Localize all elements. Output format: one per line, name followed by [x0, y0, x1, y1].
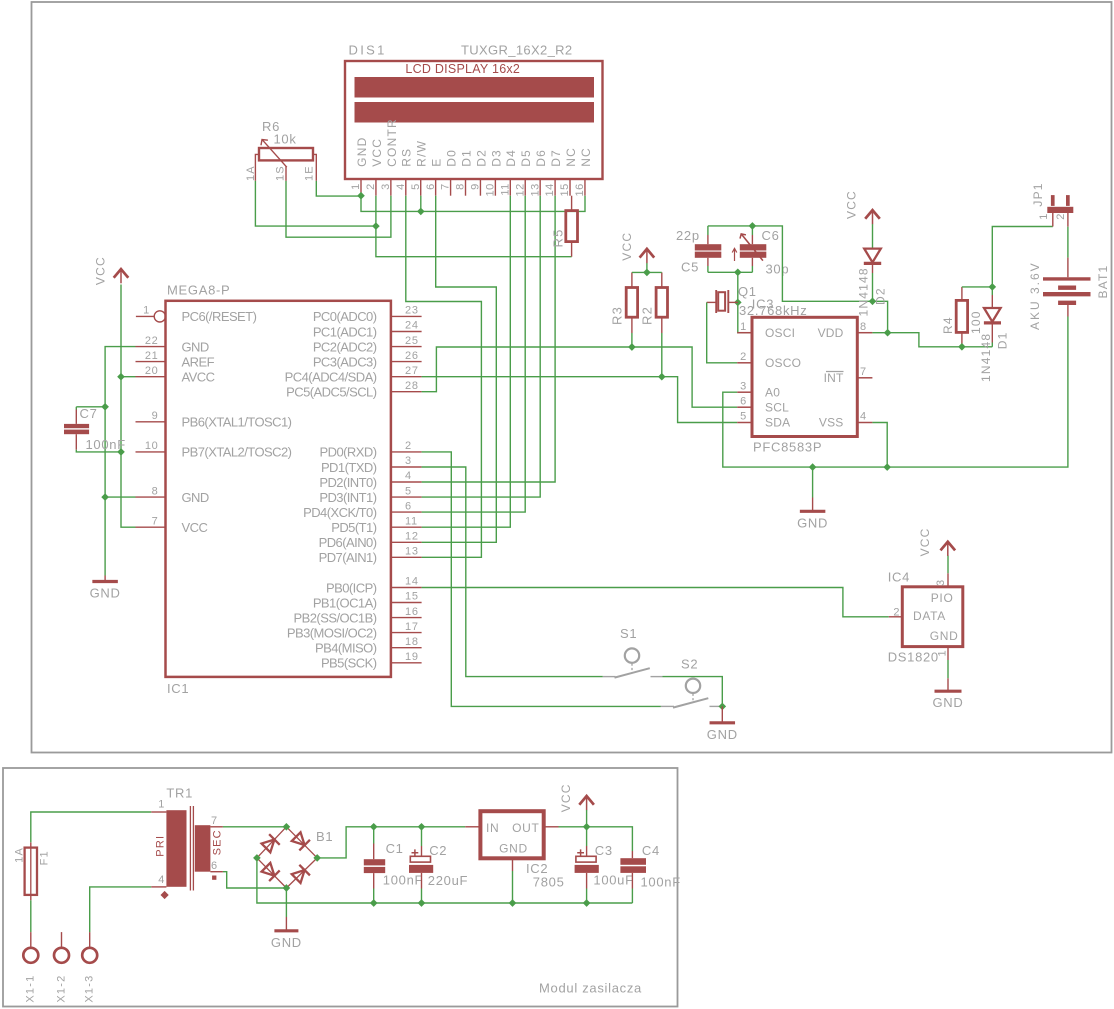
svg-text:PFC8583P: PFC8583P	[753, 440, 822, 455]
svg-text:12: 12	[514, 183, 526, 196]
svg-text:7: 7	[211, 815, 218, 827]
svg-text:PRI: PRI	[154, 835, 166, 857]
svg-text:PD7(AIN1): PD7(AIN1)	[319, 550, 377, 565]
svg-text:28: 28	[405, 380, 419, 392]
svg-text:B1: B1	[316, 829, 333, 844]
svg-text:Modul zasilacza: Modul zasilacza	[539, 981, 642, 996]
svg-text:R/W: R/W	[415, 140, 429, 167]
svg-text:C6: C6	[762, 228, 780, 243]
svg-text:1A: 1A	[245, 165, 257, 181]
svg-text:15: 15	[559, 183, 571, 196]
svg-text:4: 4	[158, 874, 165, 886]
svg-text:CONTR: CONTR	[385, 118, 399, 167]
svg-text:16: 16	[405, 606, 419, 618]
svg-text:2: 2	[1055, 212, 1067, 219]
svg-text:GND: GND	[499, 842, 528, 856]
svg-text:6: 6	[405, 500, 412, 512]
svg-text:2: 2	[893, 607, 900, 619]
svg-text:X1-2: X1-2	[55, 975, 67, 1003]
svg-text:8: 8	[860, 321, 867, 333]
svg-text:IN: IN	[486, 821, 499, 835]
svg-text:19: 19	[405, 651, 419, 663]
svg-text:D2: D2	[874, 287, 888, 305]
svg-text:C2: C2	[429, 843, 447, 858]
svg-text:26: 26	[405, 350, 419, 362]
svg-text:100nF: 100nF	[383, 873, 423, 888]
svg-text:5: 5	[410, 183, 422, 190]
svg-text:GND: GND	[90, 586, 121, 601]
svg-text:RS: RS	[400, 148, 414, 167]
svg-text:F1: F1	[39, 850, 51, 865]
svg-text:22p: 22p	[676, 228, 700, 243]
svg-text:VCC: VCC	[94, 256, 108, 285]
svg-text:IC1: IC1	[167, 681, 189, 696]
svg-text:3: 3	[405, 455, 412, 467]
svg-text:24: 24	[405, 320, 419, 332]
svg-text:4: 4	[395, 183, 407, 190]
svg-text:OUT: OUT	[512, 821, 539, 835]
svg-text:D4: D4	[504, 149, 518, 167]
svg-text:15: 15	[405, 591, 419, 603]
svg-text:2: 2	[365, 183, 377, 190]
svg-text:OSCO: OSCO	[765, 356, 801, 370]
svg-text:VCC: VCC	[182, 520, 208, 535]
svg-text:1: 1	[158, 799, 165, 811]
svg-text:13: 13	[405, 546, 419, 558]
svg-text:R4: R4	[941, 316, 955, 334]
svg-text:3: 3	[740, 380, 747, 392]
svg-text:7: 7	[152, 515, 159, 527]
svg-text:9: 9	[152, 410, 159, 422]
svg-text:1: 1	[740, 321, 747, 333]
svg-text:VCC: VCC	[620, 232, 634, 261]
svg-text:PB3(MOSI/OC2): PB3(MOSI/OC2)	[287, 625, 377, 640]
svg-text:4: 4	[405, 470, 412, 482]
svg-text:220uF: 220uF	[428, 873, 468, 888]
svg-text:1E: 1E	[303, 165, 315, 181]
svg-text:14: 14	[544, 183, 556, 196]
svg-text:2: 2	[405, 440, 412, 452]
svg-text:10: 10	[145, 440, 159, 452]
svg-text:D3: D3	[489, 149, 503, 167]
svg-text:9: 9	[470, 183, 482, 190]
svg-text:GND: GND	[182, 339, 209, 354]
svg-text:1: 1	[1038, 212, 1050, 219]
svg-text:BAT1: BAT1	[1096, 265, 1110, 299]
svg-text:6: 6	[211, 860, 218, 872]
svg-text:PC4(ADC4/SDA): PC4(ADC4/SDA)	[285, 370, 377, 385]
svg-text:4: 4	[860, 411, 867, 423]
svg-text:PIO: PIO	[931, 591, 954, 605]
svg-text:SEC: SEC	[212, 829, 224, 855]
svg-text:SDA: SDA	[765, 416, 790, 430]
svg-text:GND: GND	[930, 629, 959, 643]
svg-text:1: 1	[936, 649, 948, 656]
svg-text:INT: INT	[824, 371, 844, 385]
svg-text:JP1: JP1	[1031, 182, 1045, 206]
svg-text:GND: GND	[182, 490, 209, 505]
svg-text:NC: NC	[564, 147, 578, 167]
svg-text:PD4(XCK/T0): PD4(XCK/T0)	[303, 505, 377, 520]
svg-text:17: 17	[405, 621, 419, 633]
svg-text:GND: GND	[933, 695, 964, 710]
svg-text:DS1820: DS1820	[888, 650, 939, 665]
svg-text:11: 11	[499, 183, 511, 195]
svg-text:1: 1	[143, 305, 150, 317]
svg-text:VCC: VCC	[559, 783, 573, 812]
svg-text:6: 6	[740, 395, 747, 407]
svg-text:X1-3: X1-3	[83, 975, 95, 1003]
svg-text:6: 6	[425, 183, 437, 190]
svg-text:DATA: DATA	[913, 609, 946, 623]
svg-text:TR1: TR1	[166, 786, 193, 801]
svg-text:DIS1: DIS1	[349, 43, 387, 58]
svg-text:10k: 10k	[274, 132, 297, 147]
svg-text:A0: A0	[765, 385, 780, 399]
svg-text:D0: D0	[445, 149, 459, 167]
svg-text:E: E	[430, 158, 444, 167]
svg-text:12: 12	[405, 531, 419, 543]
svg-text:PD2(INT0): PD2(INT0)	[319, 475, 376, 490]
svg-text:PB6(XTAL1/TOSC1): PB6(XTAL1/TOSC1)	[182, 415, 292, 430]
svg-text:3: 3	[380, 183, 392, 190]
svg-text:AVCC: AVCC	[182, 370, 215, 385]
svg-text:13: 13	[529, 183, 541, 196]
svg-text:8: 8	[455, 183, 467, 190]
svg-text:100nF: 100nF	[641, 874, 681, 889]
svg-text:100nF: 100nF	[86, 437, 126, 452]
svg-text:C4: C4	[642, 843, 660, 858]
svg-text:23: 23	[405, 305, 419, 317]
svg-text:S2: S2	[681, 657, 698, 672]
svg-text:R5: R5	[551, 228, 566, 247]
svg-text:NC: NC	[579, 147, 593, 167]
svg-text:11: 11	[405, 515, 418, 527]
svg-text:PD3(INT1): PD3(INT1)	[319, 490, 376, 505]
svg-text:5: 5	[740, 411, 747, 423]
svg-text:1N4148: 1N4148	[979, 333, 993, 382]
svg-text:D7: D7	[549, 149, 563, 167]
svg-text:PC3(ADC3): PC3(ADC3)	[313, 354, 377, 369]
svg-text:PC2(ADC2): PC2(ADC2)	[313, 339, 377, 354]
svg-text:TUXGR_16X2_R2: TUXGR_16X2_R2	[461, 43, 573, 58]
svg-text:SCL: SCL	[765, 400, 789, 414]
svg-text:8: 8	[152, 485, 159, 497]
svg-text:3: 3	[935, 579, 947, 586]
svg-text:MEGA8-P: MEGA8-P	[167, 283, 230, 298]
svg-text:VCC: VCC	[918, 527, 932, 556]
svg-text:21: 21	[145, 350, 159, 362]
svg-text:S1: S1	[620, 626, 637, 641]
svg-text:GND: GND	[271, 935, 302, 950]
svg-text:D1: D1	[459, 149, 473, 167]
svg-text:VDD: VDD	[818, 326, 844, 340]
svg-text:IC4: IC4	[888, 570, 910, 585]
svg-text:PD0(RXD): PD0(RXD)	[320, 445, 377, 460]
svg-text:D6: D6	[534, 149, 548, 167]
svg-text:25: 25	[405, 335, 419, 347]
svg-text:R2: R2	[640, 306, 655, 325]
svg-text:20: 20	[145, 365, 159, 377]
svg-text:D2: D2	[474, 149, 488, 167]
svg-text:16: 16	[574, 183, 586, 196]
svg-text:PB4(MISO): PB4(MISO)	[315, 641, 377, 656]
svg-text:X1-1: X1-1	[25, 975, 37, 1003]
svg-text:1A: 1A	[14, 847, 26, 863]
svg-text:PB0(ICP): PB0(ICP)	[326, 580, 377, 595]
svg-text:VSS: VSS	[819, 416, 844, 430]
svg-text:18: 18	[405, 636, 419, 648]
svg-text:PD5(T1): PD5(T1)	[331, 520, 376, 535]
svg-text:R3: R3	[610, 306, 625, 325]
svg-text:AKU 3.6V: AKU 3.6V	[1028, 261, 1042, 330]
svg-text:PC5(ADC5/SCL): PC5(ADC5/SCL)	[286, 385, 377, 400]
svg-text:PC0(ADC0): PC0(ADC0)	[313, 309, 377, 324]
svg-text:7: 7	[440, 183, 452, 190]
svg-text:7: 7	[860, 366, 867, 378]
svg-text:PD1(TXD): PD1(TXD)	[321, 460, 377, 475]
svg-text:PB5(SCK): PB5(SCK)	[321, 656, 377, 671]
svg-text:1S: 1S	[274, 165, 286, 181]
svg-text:C3: C3	[595, 843, 613, 858]
svg-text:5: 5	[405, 485, 412, 497]
svg-text:C1: C1	[386, 841, 404, 856]
svg-text:2: 2	[740, 351, 747, 363]
svg-text:100: 100	[969, 310, 983, 334]
svg-text:AREF: AREF	[182, 354, 215, 369]
svg-text:PD6(AIN0): PD6(AIN0)	[319, 535, 377, 550]
svg-text:C7: C7	[80, 406, 98, 421]
svg-text:GND: GND	[797, 515, 828, 530]
svg-text:OSCI: OSCI	[765, 326, 795, 340]
svg-text:7805: 7805	[533, 874, 565, 889]
svg-text:GND: GND	[707, 727, 738, 742]
svg-text:14: 14	[405, 576, 419, 588]
svg-text:32.768kHz: 32.768kHz	[739, 303, 807, 318]
svg-text:PC6(/RESET): PC6(/RESET)	[182, 309, 257, 324]
svg-text:PB1(OC1A): PB1(OC1A)	[313, 595, 377, 610]
svg-text:VCC: VCC	[844, 190, 858, 219]
svg-text:PC1(ADC1): PC1(ADC1)	[313, 324, 377, 339]
svg-text:VCC: VCC	[370, 138, 384, 167]
svg-text:D5: D5	[519, 149, 533, 167]
svg-text:30p: 30p	[766, 262, 790, 277]
svg-text:GND: GND	[355, 137, 369, 167]
svg-text:1: 1	[350, 183, 362, 190]
svg-text:22: 22	[145, 335, 159, 347]
svg-text:C5: C5	[681, 260, 699, 275]
svg-text:LCD DISPLAY 16x2: LCD DISPLAY 16x2	[405, 62, 520, 76]
svg-text:PB2(SS/OC1B): PB2(SS/OC1B)	[294, 610, 377, 625]
svg-text:D1: D1	[995, 331, 1009, 349]
svg-text:1N4148: 1N4148	[856, 267, 870, 316]
svg-text:10: 10	[485, 183, 497, 196]
svg-text:100uF: 100uF	[593, 873, 633, 888]
svg-text:PB7(XTAL2/TOSC2): PB7(XTAL2/TOSC2)	[182, 445, 292, 460]
svg-text:27: 27	[405, 365, 419, 377]
